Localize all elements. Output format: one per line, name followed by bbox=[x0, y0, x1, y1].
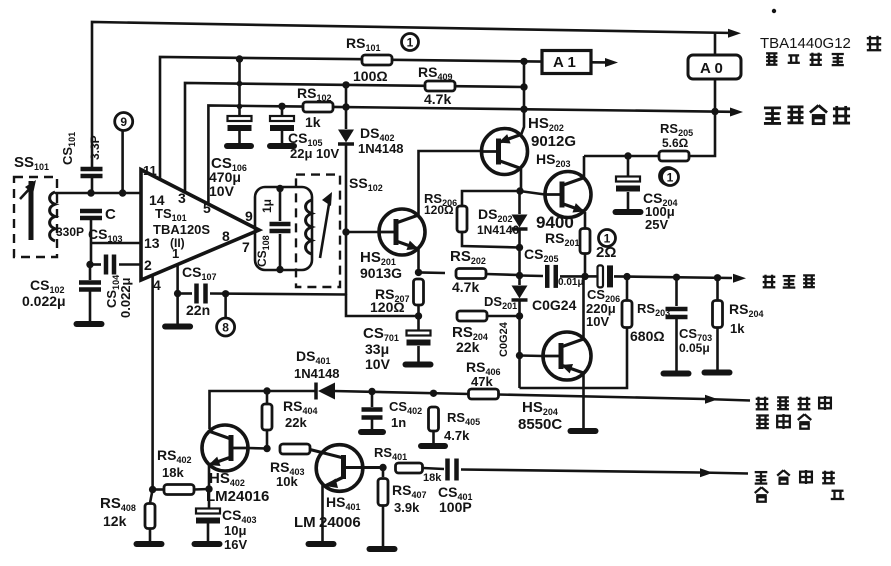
box A0 bbox=[688, 55, 741, 79]
wire pin11 rail to RS101 bbox=[160, 57, 363, 180]
svg-text:4.7k: 4.7k bbox=[452, 279, 479, 295]
ground HS401 bbox=[309, 541, 334, 547]
capacitor CS401 100P bbox=[423, 468, 444, 469]
capacitor CS206 220u 10V electrolytic coupling bbox=[585, 275, 598, 278]
box A1 bbox=[542, 51, 591, 74]
wire RS403 to HS401 base diagonal bbox=[310, 450, 344, 459]
resistor RS404 22k bbox=[266, 391, 269, 403]
svg-text:C0G24: C0G24 bbox=[532, 297, 577, 313]
svg-text:(II): (II) bbox=[170, 236, 185, 250]
svg-text:10μ: 10μ bbox=[224, 523, 246, 538]
svg-text:C0G24: C0G24 bbox=[498, 321, 510, 357]
wire HS402 base to RS404/RS403 node bbox=[248, 447, 267, 450]
node junction HS204 base bbox=[516, 352, 523, 359]
wire line-output collector line bbox=[498, 395, 705, 400]
capacitor CS402 1n bbox=[371, 392, 374, 408]
ground RS408 bbox=[137, 541, 162, 547]
capacitor CS703 0.05u bbox=[675, 277, 678, 306]
ground CS102 bbox=[77, 321, 102, 327]
svg-text:0.022μ: 0.022μ bbox=[22, 293, 66, 309]
node junction HS202 supply cross bbox=[520, 106, 527, 113]
svg-text:22μ 10V: 22μ 10V bbox=[290, 146, 339, 161]
svg-text:1: 1 bbox=[667, 171, 674, 185]
arrowhead composite sync bbox=[700, 468, 713, 477]
svg-text:4.7k: 4.7k bbox=[444, 428, 470, 443]
capacitor CS101 3.3P bbox=[81, 167, 103, 172]
svg-text:5.6Ω: 5.6Ω bbox=[662, 136, 689, 150]
wire DS201 cathode down bbox=[518, 301, 521, 388]
svg-text:22k: 22k bbox=[285, 415, 307, 430]
node junction HS203 base rail bbox=[516, 187, 523, 194]
terminal circle 8 bbox=[224, 294, 227, 318]
svg-text:A 0: A 0 bbox=[700, 60, 723, 77]
ground RS407 bbox=[370, 546, 395, 552]
ground CS701 bbox=[406, 362, 431, 368]
svg-text:1N4146: 1N4146 bbox=[477, 223, 519, 237]
wire DS202 to DS201 bbox=[518, 230, 521, 285]
circled 1 marker for RS101 bbox=[402, 34, 419, 51]
resistor RS101 bbox=[362, 55, 392, 65]
svg-text:3.3P: 3.3P bbox=[88, 135, 102, 160]
resistor RS402 18k horizontal bbox=[153, 488, 164, 491]
wire speaker rail bbox=[627, 277, 732, 278]
node junction CS101 bottom bbox=[87, 189, 94, 196]
svg-text:TBA120S: TBA120S bbox=[153, 222, 210, 237]
resistor RS408 12k bbox=[150, 490, 153, 504]
svg-text:330P: 330P bbox=[56, 225, 84, 239]
resistor RS407 3.9k bbox=[382, 468, 385, 478]
arrow core adjust SS102 bbox=[320, 198, 330, 258]
wire HS401 emitter diagonal bbox=[324, 477, 344, 487]
diode DS402 1N4148 bbox=[345, 85, 348, 129]
wire detector node down to RS204 rail bbox=[346, 295, 419, 317]
diode DS201 COG24 bbox=[512, 286, 528, 299]
text volume control bbox=[764, 108, 781, 124]
resistor RS401 18k to sync coupling bbox=[396, 463, 423, 473]
arrow core adjust SS101 bbox=[20, 185, 33, 199]
svg-text:1k: 1k bbox=[305, 114, 321, 130]
svg-text:10k: 10k bbox=[276, 474, 298, 489]
resistor RS201 2ohm bbox=[580, 229, 590, 254]
wire HS402 emitter down bbox=[208, 466, 211, 489]
svg-text:1N4148: 1N4148 bbox=[358, 141, 404, 156]
capacitor CS104 0.022u in series to pin2 bbox=[90, 263, 101, 266]
capacitor CS403 10u 16V electrolytic bbox=[208, 489, 211, 508]
node pin8 output to quad network bbox=[255, 187, 312, 270]
terminal circle 9 bbox=[115, 113, 133, 131]
svg-text:1: 1 bbox=[407, 36, 414, 50]
resistor RS206 120ohm bbox=[457, 206, 467, 232]
wire HS202 supply drop bbox=[521, 61, 524, 135]
svg-text:4: 4 bbox=[153, 277, 161, 293]
svg-text:4.7k: 4.7k bbox=[424, 91, 451, 107]
resistor RS406 47k bbox=[469, 389, 499, 399]
svg-text:18k: 18k bbox=[162, 465, 184, 480]
ground CS204 bbox=[616, 209, 641, 215]
speckle top right bbox=[772, 9, 776, 13]
resistor RS202 4.7k bbox=[419, 271, 446, 274]
arrowhead line output collector bbox=[705, 395, 718, 404]
capacitor CS106 470u 10V electrolytic bbox=[238, 59, 241, 116]
svg-text:LM: LM bbox=[294, 514, 316, 531]
node junction CS105 bbox=[278, 103, 285, 110]
wire pin1 stem to ground node bbox=[176, 265, 179, 294]
node junction output midpoint bbox=[581, 273, 588, 280]
wire DS401 anode rail bbox=[210, 391, 316, 429]
ground CS402 bbox=[361, 429, 383, 435]
resistor RS205 bbox=[659, 151, 689, 161]
circled 1 below RS205 bbox=[660, 168, 677, 185]
svg-text:22k: 22k bbox=[456, 339, 480, 355]
wire HS401 emitter to ground bbox=[321, 485, 324, 541]
svg-text:10V: 10V bbox=[586, 314, 609, 329]
resistor RS403 10k bbox=[280, 444, 310, 454]
wire RS206 bottom bbox=[462, 232, 520, 248]
diode DS202 1N4146 bbox=[518, 191, 521, 214]
transistor HS204 8550C bbox=[543, 332, 591, 380]
svg-text:C: C bbox=[105, 206, 116, 223]
svg-text:10V: 10V bbox=[209, 183, 235, 199]
svg-text:0.022μ: 0.022μ bbox=[118, 277, 133, 318]
transistor HS201 9013G bbox=[379, 209, 425, 255]
svg-text:2: 2 bbox=[144, 257, 152, 273]
svg-text:1k: 1k bbox=[730, 321, 745, 336]
svg-text:1N4148: 1N4148 bbox=[294, 366, 340, 381]
node junction CS703 bbox=[673, 274, 680, 281]
arrowhead volume control bbox=[730, 108, 743, 117]
svg-text:1μ: 1μ bbox=[260, 199, 274, 213]
svg-text:8: 8 bbox=[222, 228, 230, 244]
wire DS402 cathode down to detector node bbox=[345, 145, 348, 295]
node junction CS106 rail bbox=[236, 55, 243, 62]
ground CS105 bbox=[270, 143, 294, 149]
capacitor CS108 1u inside quad network bbox=[276, 185, 283, 192]
wire HS202 collector down to driver node bbox=[520, 169, 523, 191]
svg-text:33μ: 33μ bbox=[365, 341, 389, 357]
node junction RS405 top bbox=[430, 390, 437, 397]
node junction CS204 top bbox=[624, 152, 631, 159]
wire A1 output arrow bbox=[591, 61, 607, 64]
node junction 680ohm bbox=[623, 273, 630, 280]
ground RS208 bbox=[705, 370, 730, 376]
transistor HS202 9012G bbox=[482, 129, 528, 175]
ground CS106 bbox=[227, 143, 251, 149]
ground CS703 bbox=[664, 371, 689, 377]
svg-text:9013G: 9013G bbox=[360, 265, 402, 281]
wire HS201 collector up to HS202 base rail bbox=[419, 151, 482, 215]
node junction HS201 base tap bbox=[342, 228, 349, 235]
circled 1 near CS204 bbox=[662, 169, 679, 186]
node junction RS208 1k bbox=[714, 274, 721, 281]
svg-text:0.01μ: 0.01μ bbox=[558, 277, 584, 288]
wire pin4 long drop to AGC stage bbox=[151, 275, 154, 490]
svg-text:A 1: A 1 bbox=[553, 54, 576, 71]
node junction CS102/CS104 bbox=[86, 261, 93, 268]
wire pin5 rail - volume control line bbox=[208, 106, 282, 205]
node junction terminal 8 stem bbox=[222, 290, 229, 297]
svg-text:24006: 24006 bbox=[319, 514, 361, 531]
arrowhead speaker bbox=[733, 274, 746, 283]
wire HS204 collector up to midpoint bbox=[582, 276, 585, 339]
svg-text:120Ω: 120Ω bbox=[370, 299, 405, 315]
node junction circle9 stem bbox=[119, 189, 126, 196]
svg-text:120Ω: 120Ω bbox=[424, 203, 454, 217]
transistor HS401 LM24006 bbox=[316, 445, 363, 492]
node junction RS404 top bbox=[263, 387, 270, 394]
text line output tube collector electrode bbox=[756, 397, 769, 410]
capacitor CS205 0.01u bbox=[520, 274, 544, 277]
svg-text:9: 9 bbox=[120, 115, 127, 129]
svg-text:22n: 22n bbox=[186, 302, 210, 318]
wire top rail from CS101 to TBA1440 arrow bbox=[91, 178, 94, 193]
svg-text:10V: 10V bbox=[365, 356, 391, 372]
svg-text:3: 3 bbox=[178, 190, 186, 206]
wire SS101 to pin14 bbox=[55, 192, 141, 195]
resistor RS207 120ohm bbox=[414, 279, 424, 305]
resistor RS405 4.7k bbox=[429, 407, 439, 431]
op-amp U TS101 TBA120S triangle bbox=[141, 170, 259, 280]
svg-text:9012G: 9012G bbox=[531, 133, 576, 150]
resistor RS409 bbox=[425, 81, 455, 91]
wire HS201 emitter to RS207 bbox=[417, 249, 420, 272]
wire pin3 rail bbox=[185, 83, 524, 192]
resistor RS203 680ohm bbox=[626, 277, 629, 302]
svg-text:16V: 16V bbox=[224, 537, 247, 552]
ground CS403 bbox=[195, 541, 220, 547]
wire HS204 base bbox=[520, 354, 544, 357]
wire RS101 to A1 bbox=[392, 60, 542, 62]
text second sound channel bbox=[766, 53, 777, 64]
wire HS201 base bbox=[346, 231, 379, 234]
capacitor CS204 100u 25V electrolytic bbox=[627, 156, 630, 176]
wire CS103 to pin13 bbox=[90, 220, 93, 243]
wire RS205 to HS203 collector rail bbox=[584, 155, 659, 158]
text composite sync signal bbox=[755, 472, 768, 483]
wire RS206 top to HS202 emitter node bbox=[462, 191, 520, 206]
wire A0 to RS205 bbox=[689, 79, 715, 156]
wire composite sync line bbox=[700, 473, 748, 474]
ground RS405 bbox=[421, 443, 445, 449]
circled 1 for RS201 bbox=[599, 230, 616, 247]
node junction RS409 to HS202 supply bbox=[520, 83, 527, 90]
wire CS103 node down to CS102 bbox=[90, 243, 93, 264]
svg-text:12k: 12k bbox=[103, 513, 127, 529]
resistor RS208 1k bbox=[716, 278, 719, 300]
svg-text:8550C: 8550C bbox=[518, 416, 562, 433]
svg-text:0.05μ: 0.05μ bbox=[679, 341, 710, 355]
svg-text:3.9k: 3.9k bbox=[394, 500, 420, 515]
svg-text:18k: 18k bbox=[423, 472, 442, 484]
svg-text:7: 7 bbox=[242, 239, 250, 255]
node junction RS408 bbox=[149, 486, 156, 493]
text speaker bbox=[763, 275, 776, 288]
svg-text:47k: 47k bbox=[471, 374, 493, 389]
node A0 stub from top rail bbox=[714, 33, 717, 55]
wire HS204 emitter to ground bbox=[582, 374, 585, 428]
svg-text:100P: 100P bbox=[439, 499, 472, 515]
svg-text:25V: 25V bbox=[645, 217, 668, 232]
svg-text:100Ω: 100Ω bbox=[353, 68, 388, 84]
transistor HS203 9400 bbox=[545, 172, 591, 218]
svg-text:9: 9 bbox=[245, 208, 253, 224]
wire HS203 collector up to RS205 rail bbox=[583, 156, 586, 178]
transistor HS402 LM24016 bbox=[202, 425, 248, 471]
svg-text:2Ω: 2Ω bbox=[596, 244, 616, 261]
resistor RS102 bbox=[282, 105, 305, 108]
wire HS203 emitter to RS201 bbox=[584, 212, 587, 228]
capacitor CS103 330P bbox=[80, 209, 102, 214]
svg-text:13: 13 bbox=[144, 235, 160, 251]
svg-text:8: 8 bbox=[222, 321, 229, 335]
svg-text:680Ω: 680Ω bbox=[630, 328, 665, 344]
wire RS102 to volume arrow bbox=[333, 107, 732, 112]
arrowhead TBA1440G12 output bbox=[728, 29, 741, 38]
svg-text:1n: 1n bbox=[391, 415, 406, 430]
wire base network rail to 680ohm bbox=[520, 328, 628, 388]
node junction DS402 top bbox=[342, 81, 349, 88]
svg-text:TBA1440G12: TBA1440G12 bbox=[760, 35, 851, 52]
node junction A0 drop bbox=[711, 108, 718, 115]
node junction CS402 top bbox=[368, 388, 375, 395]
svg-text:5: 5 bbox=[203, 200, 211, 216]
resistor RS204 22k bbox=[457, 311, 487, 321]
wire HS401 collector horizontal bbox=[344, 466, 384, 469]
capacitor CS701 33u 10V electrolytic bbox=[417, 316, 420, 330]
ground pin1 bbox=[176, 294, 179, 325]
node junction DS402 line bbox=[342, 103, 349, 110]
node junction A1 input bbox=[520, 58, 527, 65]
svg-text:LM24016: LM24016 bbox=[206, 488, 269, 505]
capacitor CS105 22u 10V electrolytic bbox=[281, 107, 284, 116]
svg-text:11: 11 bbox=[143, 163, 157, 178]
ground HS204 emitter bbox=[571, 428, 596, 434]
